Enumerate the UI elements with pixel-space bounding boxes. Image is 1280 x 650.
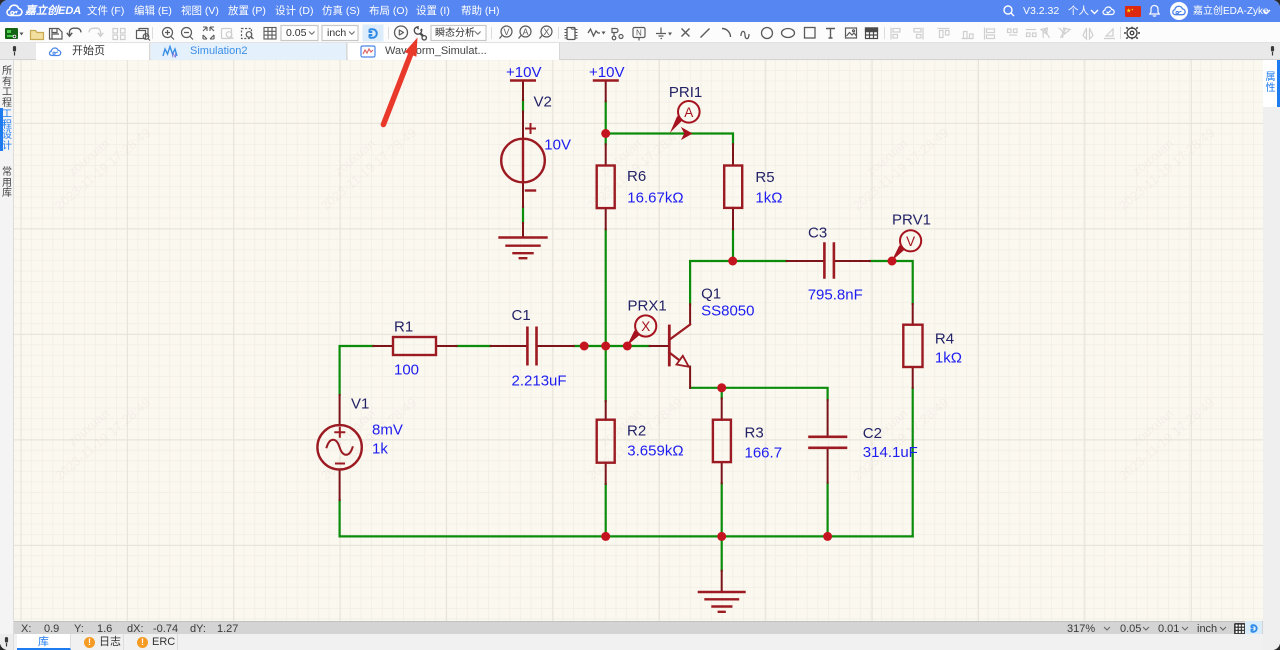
wire ground rail bbox=[340, 535, 913, 537]
pin R3 top/bottom bbox=[721, 398, 723, 483]
wire R3 bottom to rail bbox=[721, 483, 723, 536]
arc bbox=[722, 29, 731, 38]
expand bbox=[203, 27, 214, 39]
transient dropdown bbox=[431, 26, 486, 41]
dropdown 0.05 bbox=[281, 26, 318, 41]
separator bbox=[491, 27, 493, 39]
wire V1 top to R1 bbox=[340, 346, 374, 395]
port icon bbox=[612, 29, 618, 37]
wrench probe bbox=[414, 27, 426, 40]
wire C2 bottom to rail bbox=[826, 483, 828, 537]
pin Q1 collector/emitter verticals bbox=[689, 304, 691, 387]
pin R5 top/bottom bbox=[732, 144, 734, 229]
pin ground under V2 bbox=[522, 223, 524, 237]
pin R2 top/bottom bbox=[605, 401, 607, 484]
ellipse bbox=[782, 29, 795, 38]
wire C1 to Q1 base bbox=[574, 345, 650, 347]
T bbox=[826, 29, 835, 39]
voltage source V2 bbox=[501, 124, 545, 191]
separator bbox=[388, 27, 390, 39]
magnet highlighted bbox=[363, 25, 384, 42]
V probe bbox=[501, 26, 512, 37]
table bbox=[866, 28, 878, 39]
wire R5 bottom to collector node bbox=[732, 229, 734, 261]
circle bbox=[762, 28, 773, 39]
play bbox=[395, 26, 408, 39]
probe PRX1 bbox=[627, 315, 656, 346]
ground bottom bbox=[699, 592, 745, 612]
capacitor C3 bbox=[824, 244, 834, 278]
capacitor C2 bbox=[810, 437, 847, 448]
disabled align group bbox=[891, 28, 1115, 40]
pin R4 top/bottom bbox=[912, 304, 914, 388]
grid icon bbox=[264, 28, 276, 40]
separator bbox=[558, 27, 560, 39]
svg-text:A: A bbox=[522, 27, 528, 37]
separator bbox=[884, 27, 886, 39]
wire V1 bottom to rail bbox=[339, 500, 341, 536]
junction node dots bbox=[580, 129, 897, 541]
gnd bbox=[656, 28, 666, 39]
copy-search bbox=[139, 29, 148, 37]
resistor R1 bbox=[393, 337, 436, 355]
four squares (disabled) bbox=[113, 29, 125, 40]
A probe bbox=[520, 26, 531, 37]
power flag +10V (R6) bbox=[594, 79, 618, 81]
svg-text:inch: inch bbox=[327, 27, 346, 39]
pin V1 top/bottom bbox=[339, 395, 341, 500]
svg-text:N: N bbox=[636, 29, 642, 38]
pin Q1 base bbox=[650, 345, 668, 347]
svg-text:瞬态分析: 瞬态分析 bbox=[435, 26, 475, 39]
power flag +10V (V2) bbox=[511, 79, 535, 81]
square bbox=[805, 28, 816, 39]
pin ground bottom bbox=[721, 571, 723, 592]
svg-text:0.05: 0.05 bbox=[286, 27, 307, 39]
wire +10V right vertical to R6 bbox=[605, 101, 607, 144]
probe PRI1 bbox=[670, 101, 700, 140]
wire top horizontal to R5 bbox=[606, 134, 733, 145]
wire R1 to C1 bbox=[457, 345, 491, 347]
transistor Q1 bbox=[669, 325, 690, 367]
pin C2 top/bottom bbox=[827, 400, 829, 483]
line bbox=[701, 29, 710, 38]
component pins (dark red) bbox=[340, 81, 913, 592]
wire R6 bottom to base node bbox=[605, 229, 607, 401]
resistor R4 bbox=[903, 325, 922, 367]
resistor R3 bbox=[713, 420, 731, 462]
zoom out bbox=[182, 28, 192, 38]
wire C3 to PRV node to R4 bbox=[870, 261, 913, 304]
save bbox=[50, 29, 63, 40]
pin C1 left/right bbox=[491, 345, 574, 347]
pin R6 top/bottom bbox=[605, 144, 607, 229]
svg-text:V: V bbox=[503, 27, 509, 37]
pin V2 top/bottom bbox=[522, 112, 524, 208]
wire collector to C3 bbox=[690, 261, 787, 304]
dropdown inch bbox=[322, 26, 358, 41]
wire emitter to C2 top bbox=[690, 388, 828, 400]
probe PRV1 bbox=[892, 230, 921, 261]
resistor R5 bbox=[724, 166, 742, 208]
netflag N bbox=[633, 28, 645, 38]
wire R3 top bbox=[721, 388, 723, 399]
wire R2 bottom bbox=[605, 484, 607, 536]
svg-text:X: X bbox=[543, 27, 549, 37]
resistor R6 bbox=[597, 166, 615, 209]
pin power flag right bbox=[605, 81, 607, 102]
undo bbox=[70, 28, 82, 36]
separator bbox=[152, 27, 154, 39]
X probe bbox=[541, 26, 552, 37]
svg-text:★: ★ bbox=[1131, 8, 1134, 12]
zoom in bbox=[163, 28, 173, 38]
IC chip bbox=[567, 28, 575, 40]
pin R1 left/right bbox=[373, 345, 456, 347]
pcb icon bbox=[5, 28, 24, 39]
squiggle bbox=[741, 31, 749, 38]
box magnifier disabled bbox=[222, 29, 234, 40]
AC source V1 bbox=[317, 425, 361, 469]
wire rail to ground bbox=[721, 536, 723, 570]
waveform bbox=[588, 29, 600, 36]
svg-text:N: N bbox=[172, 54, 176, 59]
capacitor C1 bbox=[527, 328, 536, 364]
gear bbox=[1124, 27, 1140, 39]
wire R4 bottom to rail bbox=[912, 388, 914, 537]
wire net +10V left vertical bbox=[340, 100, 913, 571]
resistor R2 bbox=[597, 420, 615, 463]
separator bbox=[1120, 27, 1122, 39]
ground under V2 bbox=[500, 238, 547, 259]
pin power flag V2 bbox=[522, 81, 524, 101]
X bbox=[682, 29, 690, 37]
pin C3 left/right bbox=[787, 260, 870, 262]
folder bbox=[31, 31, 44, 40]
wire V2 minus to ground bbox=[522, 207, 524, 223]
image bbox=[846, 28, 857, 38]
dashed box magnifier bbox=[242, 29, 252, 39]
redo (disabled) bbox=[89, 28, 103, 36]
